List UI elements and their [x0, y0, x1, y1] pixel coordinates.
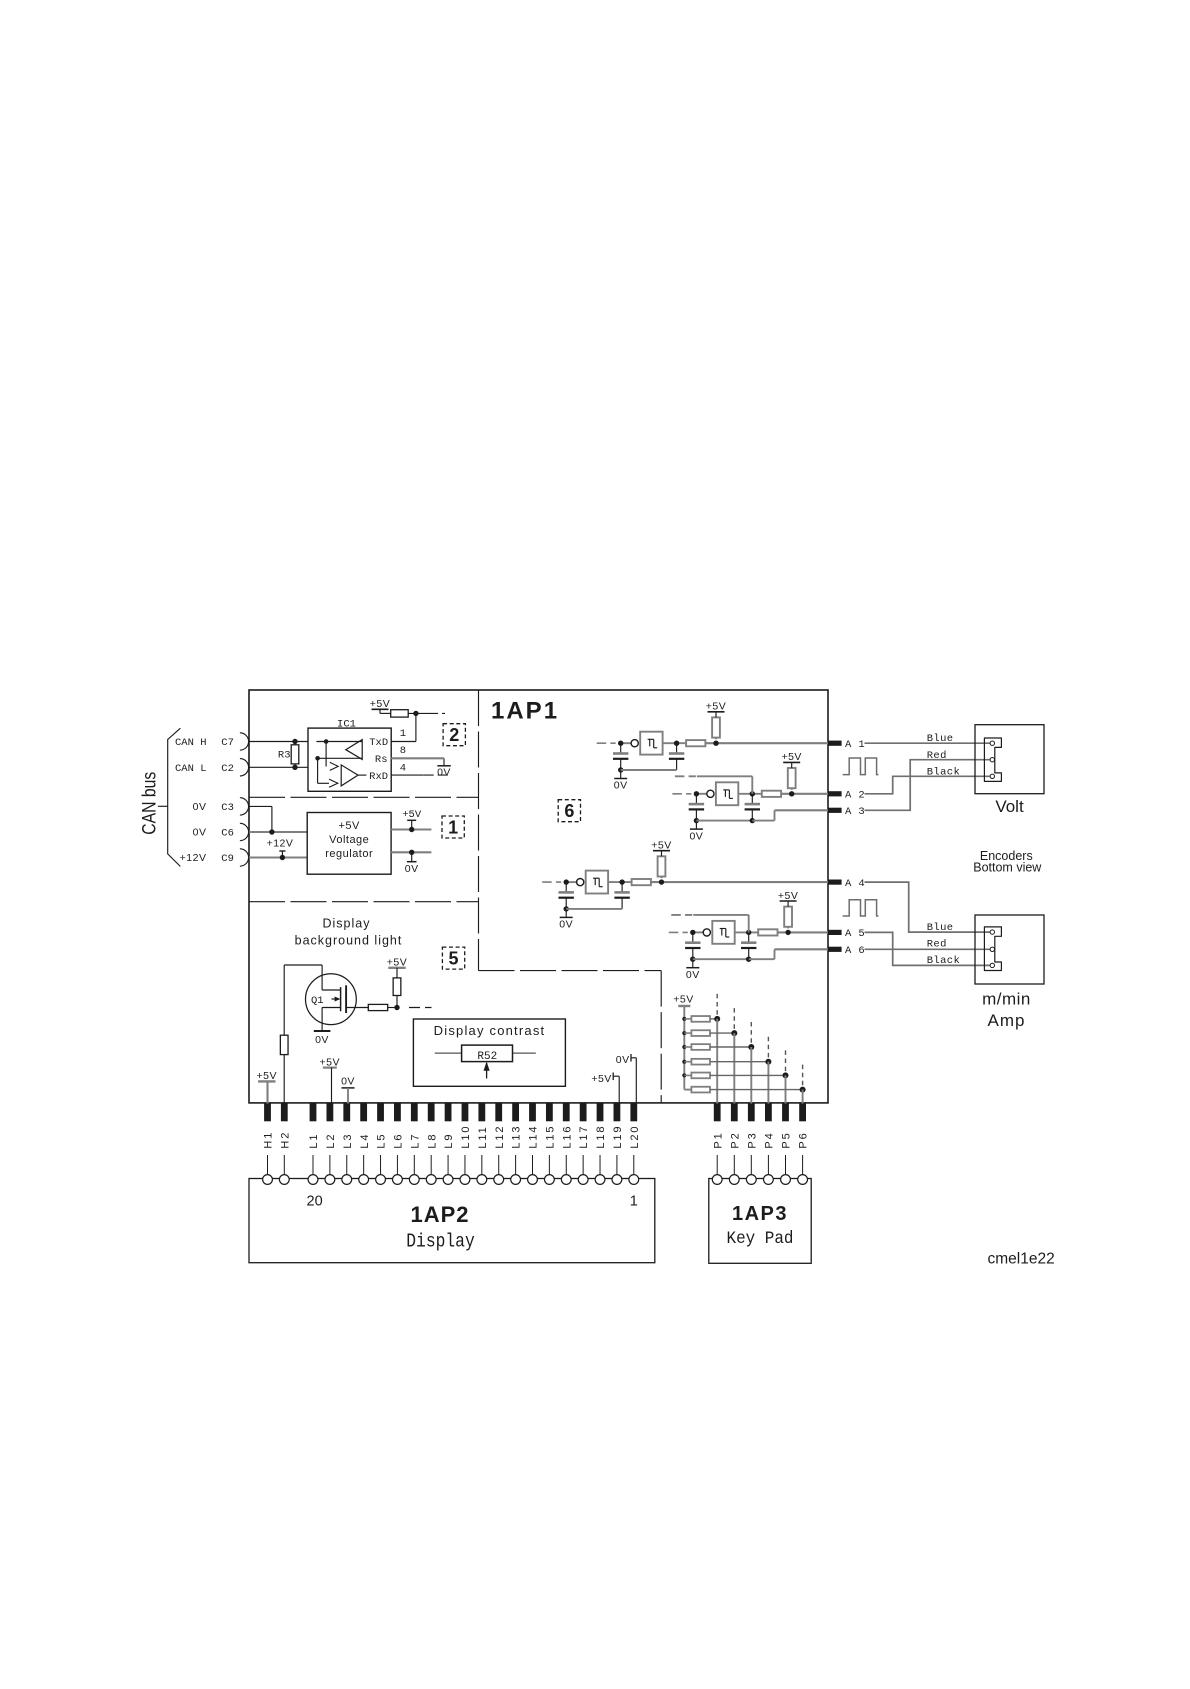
svg-text:C9: C9: [221, 853, 234, 865]
svg-text:+12V: +12V: [267, 838, 294, 850]
svg-text:R52: R52: [477, 1051, 497, 1063]
svg-text:P4: P4: [764, 1131, 776, 1148]
svg-text:P1: P1: [712, 1131, 724, 1148]
svg-text:background light: background light: [295, 934, 403, 948]
svg-text:8: 8: [400, 745, 406, 757]
svg-text:1AP3: 1AP3: [732, 1203, 788, 1225]
svg-text:IC1: IC1: [337, 719, 356, 731]
svg-text:Key Pad: Key Pad: [727, 1229, 794, 1249]
svg-text:+12V: +12V: [180, 852, 207, 864]
svg-text:+5V: +5V: [778, 890, 798, 902]
svg-text:Red: Red: [927, 939, 947, 951]
svg-text:P6: P6: [798, 1131, 810, 1148]
svg-text:+5V: +5V: [781, 751, 801, 763]
svg-text:R3: R3: [278, 750, 291, 762]
svg-text:20: 20: [307, 1193, 323, 1209]
svg-text:0V: 0V: [437, 767, 451, 779]
svg-text:L11: L11: [477, 1125, 489, 1148]
svg-text:A 1: A 1: [845, 739, 865, 751]
svg-text:0V: 0V: [315, 1034, 329, 1046]
svg-text:L8: L8: [426, 1133, 438, 1149]
svg-text:C2: C2: [221, 763, 234, 775]
svg-text:+5V: +5V: [591, 1073, 611, 1085]
svg-text:RxD: RxD: [369, 771, 388, 783]
svg-text:1: 1: [448, 817, 458, 837]
svg-text:+5V: +5V: [339, 820, 361, 832]
svg-text:+5V: +5V: [706, 701, 726, 713]
svg-text:Volt: Volt: [995, 797, 1024, 816]
svg-text:L4: L4: [359, 1133, 371, 1149]
svg-text:1AP1: 1AP1: [491, 697, 559, 724]
svg-text:L18: L18: [595, 1125, 607, 1149]
svg-text:L19: L19: [612, 1125, 624, 1149]
svg-text:A 3: A 3: [845, 806, 865, 818]
svg-text:H2: H2: [279, 1131, 291, 1149]
svg-text:Display contrast: Display contrast: [434, 1023, 546, 1038]
svg-text:regulator: regulator: [325, 848, 373, 860]
svg-text:+5V: +5V: [370, 698, 390, 710]
svg-text:L14: L14: [528, 1125, 540, 1149]
svg-text:4: 4: [400, 763, 406, 775]
svg-text:0V: 0V: [193, 801, 207, 813]
svg-text:L16: L16: [561, 1125, 573, 1149]
svg-text:L5: L5: [376, 1133, 388, 1149]
svg-text:1: 1: [630, 1193, 638, 1209]
svg-text:0V: 0V: [686, 969, 700, 981]
svg-text:Display: Display: [406, 1231, 475, 1253]
svg-text:A 6: A 6: [845, 945, 865, 957]
svg-text:L1: L1: [308, 1133, 320, 1149]
svg-text:+5V: +5V: [651, 840, 671, 852]
svg-text:L10: L10: [460, 1125, 472, 1149]
svg-text:cmel1e22: cmel1e22: [988, 1251, 1055, 1268]
svg-text:L13: L13: [511, 1125, 523, 1149]
svg-text:P5: P5: [781, 1131, 793, 1148]
svg-text:P3: P3: [746, 1131, 758, 1148]
svg-text:0V: 0V: [614, 780, 628, 792]
svg-text:L12: L12: [494, 1125, 506, 1149]
svg-text:A 2: A 2: [845, 790, 865, 802]
svg-text:L17: L17: [578, 1125, 590, 1149]
svg-text:Q1: Q1: [311, 995, 324, 1007]
svg-text:2: 2: [449, 725, 459, 745]
svg-text:L2: L2: [325, 1133, 337, 1149]
svg-text:C7: C7: [221, 737, 234, 749]
svg-text:CAN H: CAN H: [175, 737, 207, 749]
svg-text:Rs: Rs: [375, 754, 388, 766]
svg-text:Blue: Blue: [927, 733, 954, 745]
svg-text:0V: 0V: [559, 919, 573, 931]
svg-text:0V: 0V: [341, 1076, 355, 1088]
svg-text:0V: 0V: [689, 830, 703, 842]
svg-text:Blue: Blue: [927, 922, 954, 934]
svg-text:CAN bus: CAN bus: [140, 772, 161, 835]
svg-text:Black: Black: [927, 955, 961, 967]
svg-text:A 4: A 4: [845, 878, 865, 890]
svg-text:L6: L6: [393, 1133, 405, 1149]
svg-text:1AP2: 1AP2: [410, 1202, 469, 1227]
svg-text:Bottom view: Bottom view: [973, 861, 1042, 875]
svg-text:H1: H1: [263, 1131, 275, 1149]
svg-text:CAN L: CAN L: [175, 763, 207, 775]
svg-text:Voltage: Voltage: [329, 834, 369, 846]
svg-text:L15: L15: [544, 1125, 556, 1149]
svg-text:6: 6: [564, 801, 574, 821]
svg-text:0V: 0V: [616, 1054, 630, 1066]
svg-text:C3: C3: [221, 802, 234, 814]
svg-text:+5V: +5V: [402, 809, 422, 821]
svg-text:Red: Red: [927, 750, 947, 762]
svg-text:TxD: TxD: [369, 737, 388, 749]
svg-text:+5V: +5V: [673, 993, 693, 1005]
svg-text:P2: P2: [729, 1131, 741, 1148]
svg-text:5: 5: [449, 948, 459, 968]
svg-text:1: 1: [400, 728, 406, 740]
svg-text:L20: L20: [629, 1125, 641, 1149]
svg-text:Black: Black: [927, 767, 961, 779]
svg-text:L3: L3: [342, 1133, 354, 1149]
svg-text:Amp: Amp: [988, 1011, 1026, 1030]
svg-text:C6: C6: [221, 828, 234, 840]
svg-text:L7: L7: [409, 1133, 421, 1149]
svg-text:m/min: m/min: [982, 990, 1031, 1009]
svg-text:0V: 0V: [405, 863, 419, 875]
svg-text:0V: 0V: [193, 827, 207, 839]
svg-text:Display: Display: [323, 917, 371, 931]
svg-text:A 5: A 5: [845, 928, 865, 940]
svg-text:L9: L9: [443, 1133, 455, 1149]
